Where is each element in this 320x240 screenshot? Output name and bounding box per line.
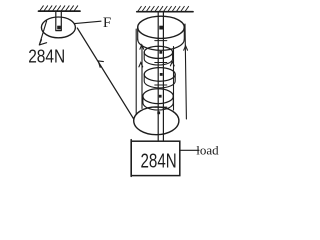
arrow pointing from pulley to 284N label xyxy=(39,21,46,45)
pulley P3 rim sides and lower arc xyxy=(144,74,175,87)
top pulley P1 lower rim arc xyxy=(138,39,185,50)
left pulley wheel xyxy=(41,17,75,38)
bottom pulley axle dot xyxy=(157,111,160,114)
hauling rope from left pulley to bottom block xyxy=(77,28,133,119)
strap link bars xyxy=(155,41,167,108)
leader line for F xyxy=(75,21,101,23)
tension arrowhead on hauling rope xyxy=(98,61,103,67)
pulley P2 rim sides and lower arc xyxy=(144,52,172,65)
arrow on left strand (lower) xyxy=(139,63,143,67)
pulley P2 axle dot xyxy=(159,51,162,54)
load box left edge overshoot xyxy=(130,140,132,177)
top pulley P1 rim sides xyxy=(138,27,185,39)
svg-text:load: load xyxy=(196,143,219,158)
left ceiling hatching xyxy=(40,6,78,11)
arrow on right outer strand xyxy=(184,46,188,50)
left outer rope strand xyxy=(135,29,137,114)
pulley P4 rim sides and lower arc xyxy=(143,96,173,110)
top pulley axle xyxy=(159,26,164,30)
pulley P4 wheel xyxy=(143,89,173,104)
svg-text:F: F xyxy=(103,15,111,31)
svg-text:284N: 284N xyxy=(28,46,65,66)
right fixed support (ceiling) line xyxy=(137,11,193,13)
left fixed support (ceiling) line xyxy=(39,10,81,12)
pulley P3 wheel xyxy=(144,68,175,82)
pulley P2 wheel xyxy=(144,46,172,58)
central strap through pulley block xyxy=(158,12,163,141)
bottom pulley P5 wheel xyxy=(134,107,179,135)
left pulley hanger bracket xyxy=(56,11,62,31)
right inner rope strand xyxy=(173,47,175,111)
left inner rope strand xyxy=(141,47,143,109)
pulley P4 axle dot xyxy=(159,95,162,98)
leader line to load label xyxy=(180,149,199,151)
svg-text:284N: 284N xyxy=(141,149,177,172)
pulley P3 axle dot xyxy=(160,73,163,76)
load box xyxy=(131,141,180,175)
left pulley axle xyxy=(57,26,61,30)
top pulley P1 wheel xyxy=(138,16,185,38)
arrow on left inner strand (upper) xyxy=(140,45,144,49)
right ceiling hatching xyxy=(138,6,189,11)
arrow on right inner strand xyxy=(170,62,174,66)
right outer rope strand xyxy=(185,24,186,119)
